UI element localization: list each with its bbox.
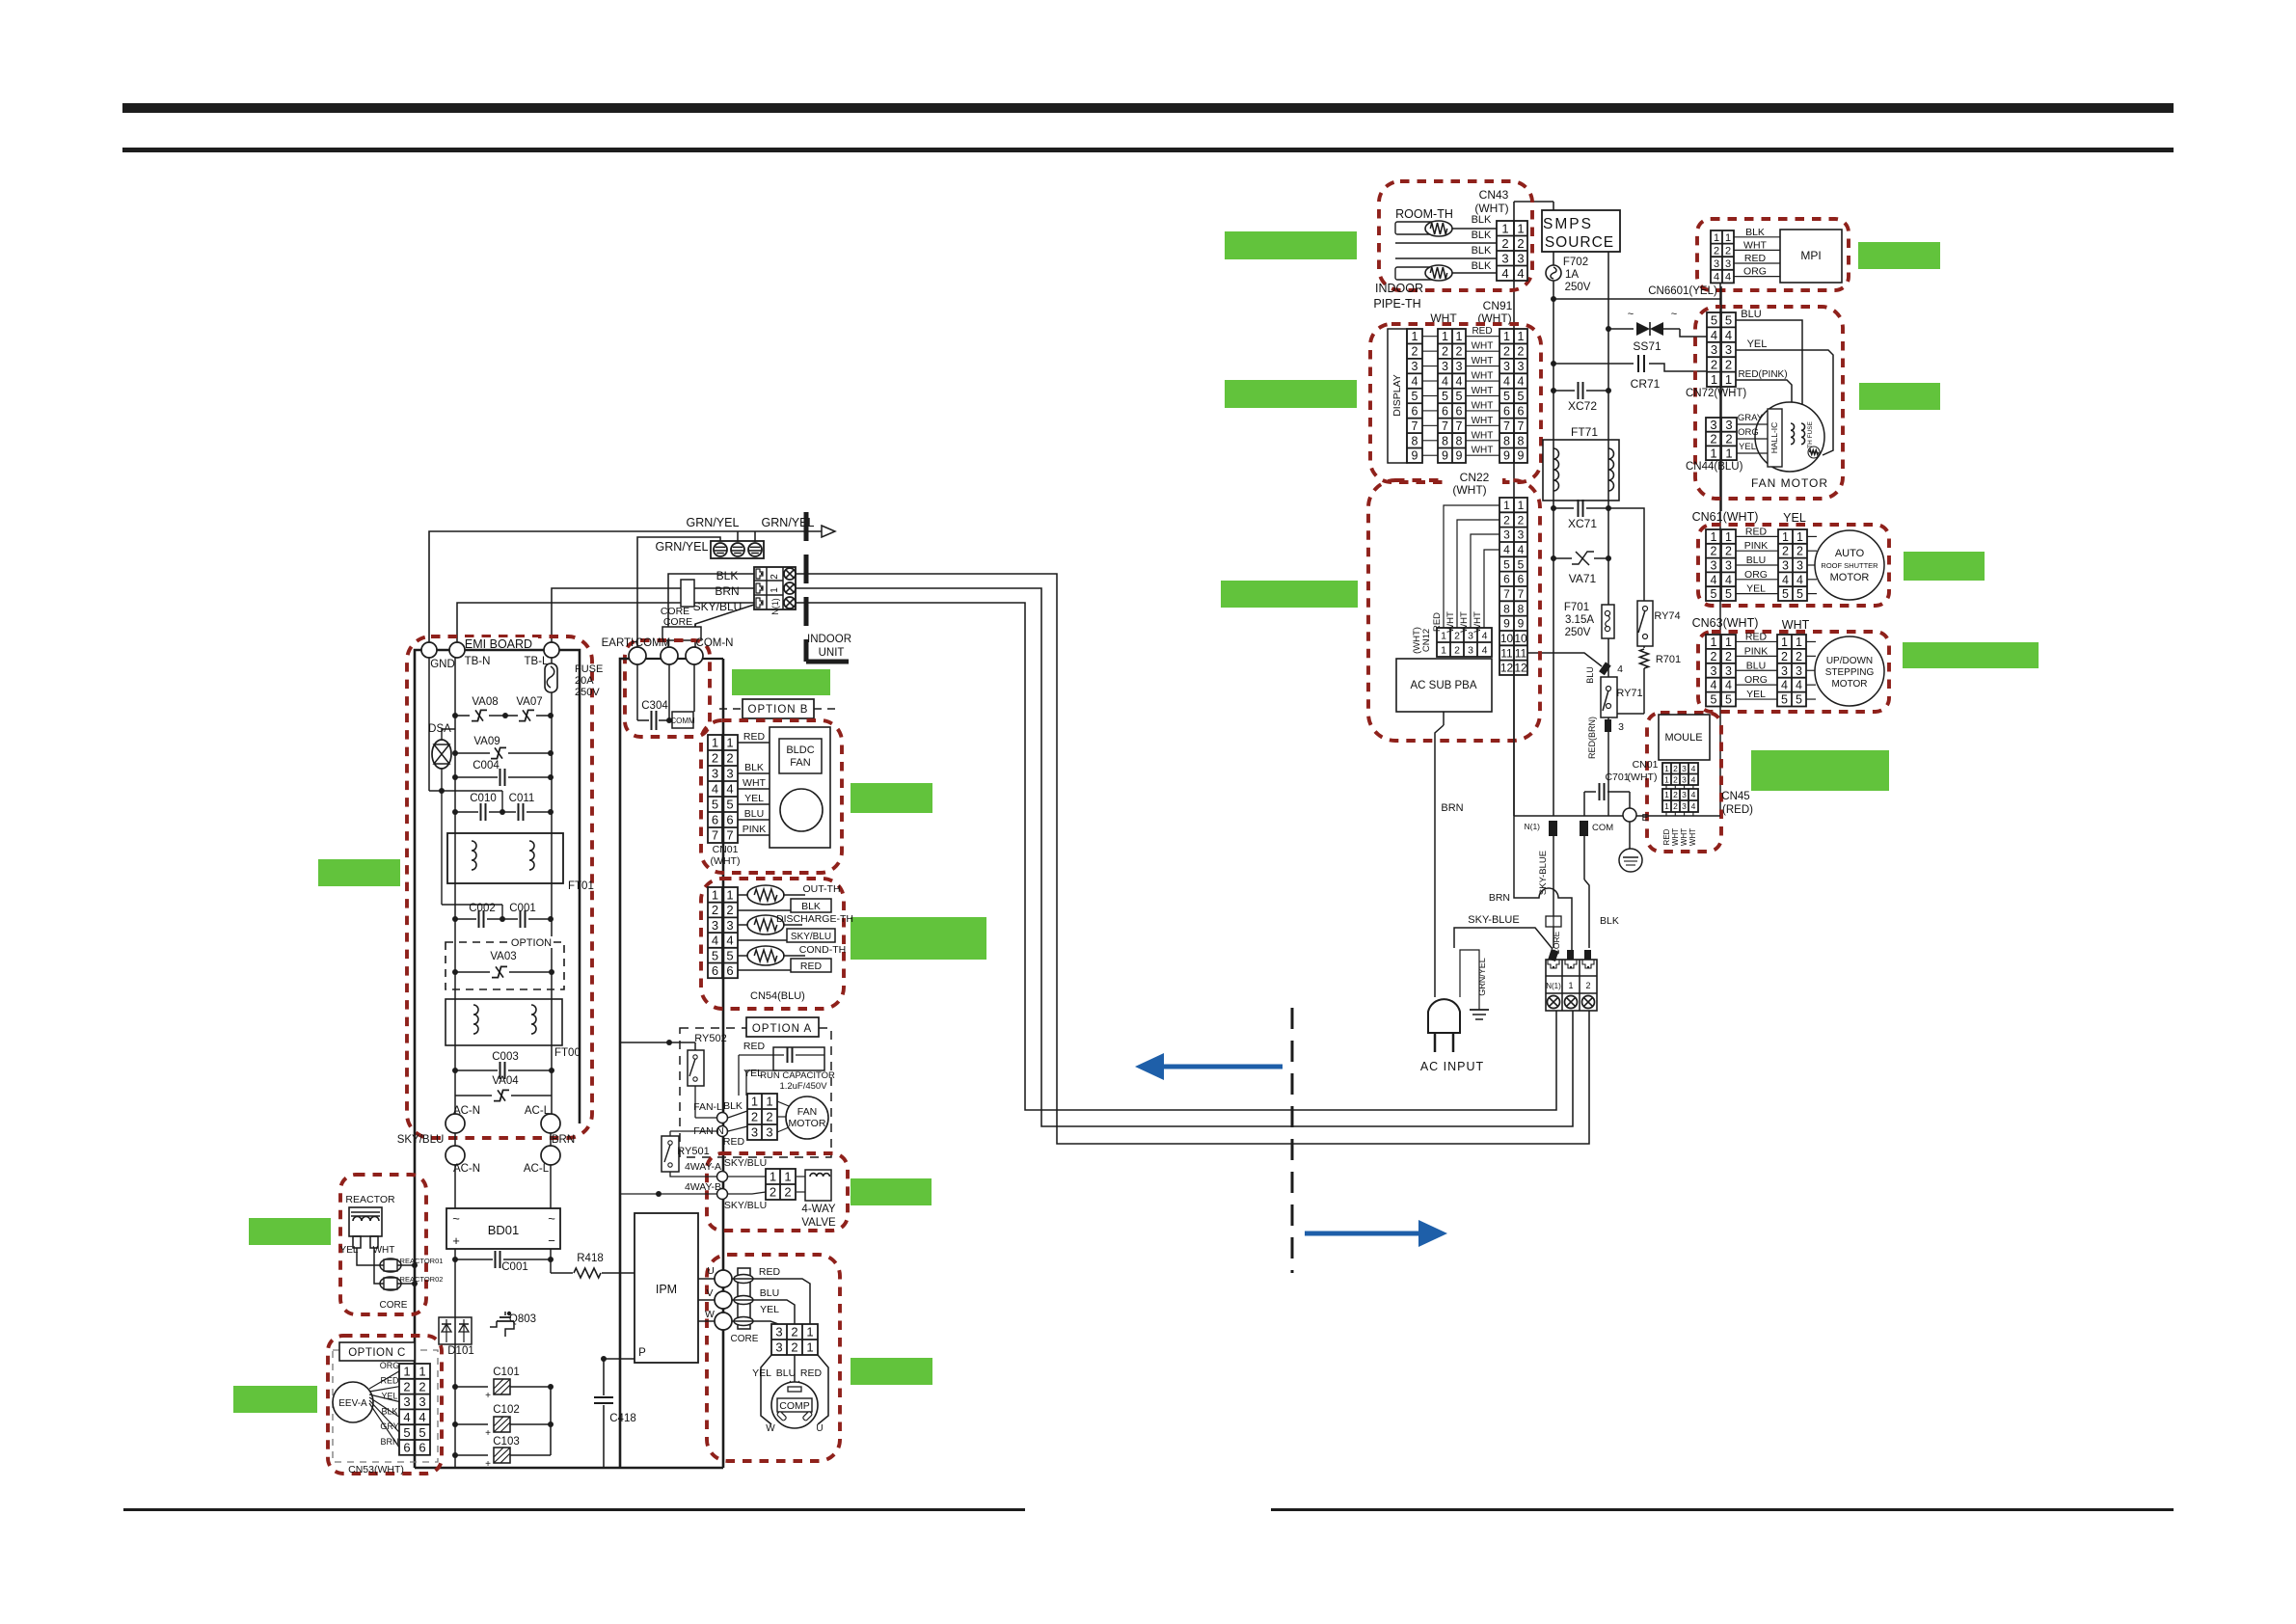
capacitor C701 xyxy=(1584,791,1596,793)
wire to CN66 xyxy=(1553,298,1720,300)
svg-text:C003: C003 xyxy=(492,1051,519,1063)
terminal AC-N main board xyxy=(446,1146,465,1165)
MOULE dashed outline xyxy=(1647,713,1721,852)
wire U RED xyxy=(732,1279,810,1324)
wire CN72 pin5 BLU to motor xyxy=(1736,320,1802,421)
vertical bus CN66 down xyxy=(1719,283,1721,816)
ROOM-TH dashed outline xyxy=(1379,181,1532,290)
svg-text:1: 1 xyxy=(1664,764,1669,773)
capacitor XC72 xyxy=(1551,388,1556,393)
svg-text:RY71: RY71 xyxy=(1616,688,1642,699)
svg-text:RED: RED xyxy=(1744,253,1767,264)
wire BLU to comp top xyxy=(794,1355,796,1389)
svg-text:4: 4 xyxy=(1482,630,1488,641)
svg-text:HALL-IC: HALL-IC xyxy=(1769,422,1779,454)
svg-text:8: 8 xyxy=(1412,434,1418,447)
svg-text:20A: 20A xyxy=(575,675,594,687)
fuse F702 1A 250V xyxy=(1546,265,1561,281)
svg-text:6: 6 xyxy=(712,813,718,827)
svg-text:1: 1 xyxy=(1441,630,1446,641)
svg-text:(WHT): (WHT) xyxy=(1452,483,1486,497)
svg-text:1: 1 xyxy=(726,736,733,750)
core on UVW wires xyxy=(738,1268,750,1329)
svg-text:(WHT): (WHT) xyxy=(1412,627,1422,654)
earth terminal strip (3 screw terminals) xyxy=(711,541,764,558)
svg-text:2: 2 xyxy=(1673,801,1678,811)
svg-text:2: 2 xyxy=(1725,245,1731,257)
svg-text:3: 3 xyxy=(1781,664,1788,678)
svg-text:WHT: WHT xyxy=(1472,386,1494,396)
svg-text:WHT: WHT xyxy=(1472,341,1494,352)
connector CN63 left table xyxy=(1706,635,1736,707)
motor winding coils xyxy=(1791,423,1795,445)
green redaction box 5 xyxy=(1904,552,1985,581)
svg-text:XC72: XC72 xyxy=(1568,399,1597,413)
svg-text:1: 1 xyxy=(1664,801,1669,811)
svg-text:8: 8 xyxy=(1503,434,1510,447)
svg-text:3: 3 xyxy=(712,918,718,933)
svg-text:2: 2 xyxy=(1673,764,1678,773)
svg-text:2: 2 xyxy=(766,1110,772,1124)
svg-text:BLK: BLK xyxy=(1472,214,1492,226)
terminal TB-L xyxy=(544,642,559,658)
green redaction box 8 xyxy=(1751,750,1889,791)
svg-text:CN44(BLU): CN44(BLU) xyxy=(1686,461,1743,473)
svg-text:1: 1 xyxy=(1517,221,1524,235)
line filter FT00 xyxy=(446,999,562,1045)
svg-text:4: 4 xyxy=(1456,375,1463,389)
svg-text:U: U xyxy=(816,1423,823,1434)
svg-text:3: 3 xyxy=(1682,790,1687,799)
connector fan 3-pin table xyxy=(747,1094,777,1140)
svg-text:FT71: FT71 xyxy=(1571,425,1598,439)
indoor/outdoor boundary dashed line (top) xyxy=(804,512,809,662)
wires and labels CN63 xyxy=(1736,640,1777,642)
wires 4way terminals to connector xyxy=(728,1176,766,1177)
svg-text:8: 8 xyxy=(1456,434,1463,447)
svg-text:4: 4 xyxy=(726,782,733,797)
svg-text:5: 5 xyxy=(1725,693,1732,707)
indoor unit corner bracket xyxy=(806,660,849,664)
svg-text:7: 7 xyxy=(1456,420,1463,433)
wire N(1) from TB-N to terminal block xyxy=(457,603,754,644)
svg-text:PIPE-TH: PIPE-TH xyxy=(1373,297,1420,311)
svg-text:4: 4 xyxy=(1711,679,1717,692)
svg-text:5: 5 xyxy=(1796,693,1802,707)
svg-text:F701: F701 xyxy=(1564,602,1589,613)
wire AC-L to BD01 xyxy=(550,1165,552,1208)
wire bus 1 outdoor to indoor xyxy=(796,588,1573,1126)
svg-text:9: 9 xyxy=(1503,449,1510,463)
BLDC fan circle xyxy=(780,789,823,831)
connector CN01 module table xyxy=(1662,763,1698,785)
svg-text:BRN: BRN xyxy=(1489,892,1510,904)
svg-text:F702: F702 xyxy=(1563,257,1588,268)
svg-text:SS71: SS71 xyxy=(1633,339,1661,353)
svg-text:8: 8 xyxy=(1518,602,1525,615)
svg-text:RY501: RY501 xyxy=(677,1146,709,1157)
svg-text:VA71: VA71 xyxy=(1569,572,1597,585)
svg-text:C011: C011 xyxy=(509,793,535,804)
connector COM black xyxy=(1580,821,1588,836)
svg-text:RED(PINK): RED(PINK) xyxy=(1738,369,1787,380)
svg-text:RED: RED xyxy=(759,1266,781,1278)
terminal TB-N xyxy=(449,642,465,658)
svg-text:12: 12 xyxy=(1500,662,1514,675)
svg-text:WHT: WHT xyxy=(1472,356,1494,366)
svg-text:MOTOR: MOTOR xyxy=(1830,572,1870,583)
svg-text:2: 2 xyxy=(791,1325,797,1340)
svg-text:1: 1 xyxy=(1441,644,1446,656)
svg-text:CR71: CR71 xyxy=(1631,377,1661,391)
svg-text:UNIT: UNIT xyxy=(819,647,845,659)
svg-text:2: 2 xyxy=(1503,345,1510,359)
svg-text:3: 3 xyxy=(1725,559,1732,573)
svg-text:SKY/BLU: SKY/BLU xyxy=(693,600,743,613)
svg-text:CORE: CORE xyxy=(731,1334,759,1344)
svg-text:1: 1 xyxy=(1711,530,1717,544)
svg-text:1: 1 xyxy=(1711,636,1717,649)
svg-text:E: E xyxy=(1641,812,1648,824)
svg-text:1: 1 xyxy=(1725,636,1732,649)
svg-text:W: W xyxy=(705,1309,715,1320)
svg-text:FUSE: FUSE xyxy=(575,663,603,675)
svg-text:YEL: YEL xyxy=(1746,689,1766,700)
wires CN91 middle to right with labels xyxy=(1466,336,1499,338)
svg-text:7: 7 xyxy=(1518,587,1525,601)
svg-text:6: 6 xyxy=(1503,573,1510,586)
svg-text:4: 4 xyxy=(1691,790,1696,799)
svg-text:6: 6 xyxy=(1518,404,1525,418)
svg-text:3: 3 xyxy=(1501,251,1508,265)
svg-text:BLK: BLK xyxy=(1745,227,1765,238)
blue arrow left (to outdoor unit) xyxy=(1162,1065,1283,1069)
svg-text:4: 4 xyxy=(1725,573,1732,586)
wire AC-N to BD01 xyxy=(454,1165,456,1208)
svg-text:SKY-BLUE: SKY-BLUE xyxy=(1468,914,1519,926)
svg-text:C002: C002 xyxy=(469,903,496,914)
svg-text:2: 2 xyxy=(712,903,718,917)
svg-text:5: 5 xyxy=(1796,587,1803,601)
wire AC-N drop xyxy=(454,1133,456,1146)
svg-text:1: 1 xyxy=(1781,636,1788,649)
svg-text:SKY/BLU: SKY/BLU xyxy=(724,1157,767,1169)
svg-text:2: 2 xyxy=(1725,358,1732,372)
svg-text:2: 2 xyxy=(1454,644,1460,656)
svg-text:+: + xyxy=(452,1233,460,1248)
wire XC71 to RY74 xyxy=(1608,508,1644,601)
svg-text:INDOOR: INDOOR xyxy=(1375,282,1423,295)
svg-text:5: 5 xyxy=(1503,557,1510,571)
svg-text:AC-L: AC-L xyxy=(524,1163,550,1175)
label BLK box (OUT-TH) xyxy=(791,899,831,912)
wire RY502 to FAN-L xyxy=(694,1086,696,1118)
svg-text:1: 1 xyxy=(1711,372,1717,387)
svg-text:4: 4 xyxy=(1691,801,1696,811)
label RED box (COND-TH) xyxy=(791,959,831,972)
svg-text:10: 10 xyxy=(1500,632,1514,645)
svg-text:8: 8 xyxy=(1518,434,1525,447)
svg-text:4: 4 xyxy=(1714,272,1719,284)
svg-text:REACTOR: REACTOR xyxy=(345,1194,395,1205)
wire bus 2 outdoor to indoor xyxy=(796,574,1589,1144)
svg-text:4: 4 xyxy=(1711,573,1717,586)
svg-text:3: 3 xyxy=(1711,559,1717,573)
svg-text:RED: RED xyxy=(1662,828,1671,845)
svg-text:+: + xyxy=(485,1459,491,1470)
svg-text:C004: C004 xyxy=(473,760,500,771)
svg-text:VALVE: VALVE xyxy=(801,1217,836,1229)
svg-text:1: 1 xyxy=(419,1365,425,1379)
connector 4-way 2-pin table xyxy=(766,1169,796,1200)
svg-text:C010: C010 xyxy=(470,793,497,804)
svg-text:4WAY-A: 4WAY-A xyxy=(685,1161,721,1173)
header rule thin xyxy=(122,148,2174,152)
svg-text:7: 7 xyxy=(1503,587,1510,601)
svg-text:C701: C701 xyxy=(1605,771,1629,783)
wire CN72 pin1 RED to motor xyxy=(1736,380,1792,421)
indoor/outdoor divider dashed line (bottom) xyxy=(1291,1008,1294,1273)
svg-text:D101: D101 xyxy=(447,1345,474,1357)
svg-text:N(1): N(1) xyxy=(1524,822,1540,831)
svg-text:Q803: Q803 xyxy=(509,1313,536,1325)
diode SS71 xyxy=(1606,326,1611,332)
svg-text:P: P xyxy=(638,1347,646,1359)
label box OPTION A xyxy=(746,1017,819,1037)
svg-text:3: 3 xyxy=(403,1394,410,1409)
svg-text:2: 2 xyxy=(784,1185,791,1200)
svg-text:4: 4 xyxy=(1796,573,1803,586)
svg-text:WHT: WHT xyxy=(1671,828,1680,846)
svg-text:3: 3 xyxy=(1412,360,1418,373)
svg-text:WHT: WHT xyxy=(1782,618,1810,632)
svg-text:1: 1 xyxy=(806,1340,813,1355)
svg-text:MPI: MPI xyxy=(1800,249,1821,262)
connector CN12 4x2 table xyxy=(1437,628,1492,657)
wire SMPS left rail down xyxy=(1553,281,1554,816)
EEV wire fan-out with labels xyxy=(369,1371,399,1389)
svg-text:BRN: BRN xyxy=(715,584,739,598)
svg-text:4: 4 xyxy=(1501,266,1508,281)
svg-text:6: 6 xyxy=(1456,404,1463,418)
svg-text:BLK: BLK xyxy=(1472,260,1492,272)
EARTH COMM dashed outline xyxy=(625,640,710,737)
wire BLK pin3 xyxy=(1395,257,1497,259)
wire DSA bypass xyxy=(429,790,502,792)
svg-text:2: 2 xyxy=(770,1185,776,1200)
svg-text:FT00: FT00 xyxy=(554,1047,581,1059)
rail wire N(1)-COM-E xyxy=(1514,815,1720,817)
wire BLK pin2 xyxy=(1395,242,1497,244)
bridge rectifier BD01 xyxy=(446,1208,560,1249)
svg-text:4: 4 xyxy=(1796,679,1802,692)
comp plug housing xyxy=(761,1355,771,1424)
svg-text:WHT: WHT xyxy=(1472,416,1494,426)
svg-text:1: 1 xyxy=(1714,232,1719,244)
wire SKY-BLUE to AC terminal xyxy=(1454,928,1553,949)
green redaction box 14 xyxy=(851,1178,932,1205)
svg-text:5: 5 xyxy=(1503,390,1510,403)
svg-text:3: 3 xyxy=(1710,418,1716,432)
svg-text:WHT: WHT xyxy=(1472,430,1494,441)
svg-text:PINK: PINK xyxy=(1744,645,1769,657)
wire BRN from TB-L to terminal block xyxy=(552,588,754,644)
svg-text:3: 3 xyxy=(1503,528,1510,542)
DISPLAY dashed outline xyxy=(1370,324,1541,482)
svg-text:MOTOR: MOTOR xyxy=(1831,679,1867,690)
thermistor OUT-TH xyxy=(738,894,748,896)
4-way valve dashed outline xyxy=(707,1153,848,1231)
svg-text:6: 6 xyxy=(1503,404,1510,418)
svg-text:U: U xyxy=(707,1265,715,1277)
svg-text:YEL: YEL xyxy=(340,1245,359,1256)
svg-text:1: 1 xyxy=(1725,372,1732,387)
svg-text:6: 6 xyxy=(403,1441,410,1455)
svg-text:CN91: CN91 xyxy=(1483,299,1513,312)
green redaction box 13 xyxy=(249,1218,331,1245)
thermistor DISCHARGE-TH xyxy=(738,924,748,926)
CN22 dashed outline xyxy=(1368,480,1540,741)
svg-text:1: 1 xyxy=(1442,330,1448,343)
svg-text:2: 2 xyxy=(1503,513,1510,527)
svg-text:RED: RED xyxy=(1472,326,1492,337)
svg-text:TB-N: TB-N xyxy=(465,656,491,667)
main bus vertical (CN43/CN91/CN22) xyxy=(1513,202,1515,816)
wires CN01 to CN45 xyxy=(1665,785,1667,789)
svg-text:BRN: BRN xyxy=(552,1134,575,1146)
green redaction box 12 xyxy=(318,859,400,886)
svg-text:4: 4 xyxy=(1518,543,1525,556)
DISPLAY block xyxy=(1388,329,1407,463)
svg-text:9: 9 xyxy=(1503,617,1510,631)
svg-text:N(1): N(1) xyxy=(1546,982,1561,990)
main board right rail (bus) xyxy=(722,659,725,1468)
OPTION C inner dashed box xyxy=(333,1350,438,1462)
blue arrow right (to indoor unit) xyxy=(1305,1232,1419,1236)
svg-text:5: 5 xyxy=(1518,390,1525,403)
svg-text:BLK: BLK xyxy=(716,569,739,582)
svg-text:WHT: WHT xyxy=(1680,828,1688,846)
svg-text:V: V xyxy=(706,1287,713,1299)
green redaction box 4 xyxy=(1859,383,1940,410)
wire GND internal xyxy=(428,658,430,791)
svg-text:CORE: CORE xyxy=(380,1300,408,1311)
fuse FUSE 20A 250V xyxy=(545,663,557,692)
green redaction box 11 xyxy=(851,917,986,960)
svg-text:+: + xyxy=(485,1391,491,1401)
svg-text:IPM: IPM xyxy=(656,1283,677,1296)
earth-comm solid box edges xyxy=(620,659,629,1468)
svg-text:3: 3 xyxy=(1782,559,1789,573)
svg-text:+: + xyxy=(485,1428,491,1439)
svg-text:3: 3 xyxy=(1725,664,1732,678)
footer rule right xyxy=(1271,1508,2174,1511)
svg-text:GRN/YEL: GRN/YEL xyxy=(656,540,709,554)
label box OPTION B xyxy=(719,708,743,710)
svg-text:2: 2 xyxy=(1725,650,1732,663)
svg-text:AC-N: AC-N xyxy=(453,1163,480,1175)
CN63 dashed outline xyxy=(1698,632,1889,712)
svg-text:1: 1 xyxy=(1518,499,1525,512)
svg-text:5: 5 xyxy=(419,1425,425,1440)
svg-text:2: 2 xyxy=(1412,345,1418,359)
terminal FAN-N xyxy=(717,1126,728,1137)
svg-text:250V: 250V xyxy=(575,687,600,698)
AC SUB PBA box xyxy=(1396,659,1492,712)
svg-text:BLK: BLK xyxy=(381,1406,397,1416)
svg-text:3: 3 xyxy=(1456,360,1463,373)
core on comm wires (small) xyxy=(681,580,694,607)
connector CN53 6-pin table xyxy=(399,1364,430,1455)
outdoor terminal block N(1) 1 2 xyxy=(754,567,796,609)
wire SKY-BLUE down from N(1) xyxy=(1553,836,1554,948)
svg-text:VA03: VA03 xyxy=(490,951,516,962)
svg-text:2: 2 xyxy=(1782,545,1789,558)
connector CN45 table xyxy=(1662,789,1698,812)
svg-text:3: 3 xyxy=(775,1340,782,1355)
svg-text:ORG: ORG xyxy=(1744,569,1768,581)
wires CN01 to BLDC fan xyxy=(738,742,770,744)
EMI board solid box xyxy=(415,650,580,1123)
MPI dashed outline xyxy=(1697,219,1849,290)
svg-text:FAN: FAN xyxy=(790,757,810,769)
terminal FAN-L xyxy=(717,1113,728,1123)
svg-text:SKY/BLU: SKY/BLU xyxy=(791,932,831,942)
svg-text:2: 2 xyxy=(1456,345,1463,359)
svg-text:DISCHARGE-TH: DISCHARGE-TH xyxy=(776,913,853,925)
MPI box xyxy=(1780,230,1842,283)
svg-text:9: 9 xyxy=(1518,449,1525,463)
svg-text:BD01: BD01 xyxy=(488,1223,520,1237)
svg-text:OPTION C: OPTION C xyxy=(348,1347,406,1359)
svg-text:2: 2 xyxy=(1673,790,1678,799)
svg-text:3: 3 xyxy=(1503,360,1510,373)
wire COMM down to C304 junction xyxy=(668,664,670,720)
svg-text:SKY/BLU: SKY/BLU xyxy=(724,1200,767,1211)
svg-text:BLK: BLK xyxy=(801,901,821,912)
svg-text:4: 4 xyxy=(1711,328,1717,342)
svg-text:BLK: BLK xyxy=(1472,245,1492,257)
svg-text:WHT: WHT xyxy=(1472,400,1494,411)
svg-text:4: 4 xyxy=(1725,679,1732,692)
svg-text:1: 1 xyxy=(766,1095,772,1109)
svg-text:2: 2 xyxy=(1442,345,1448,359)
diode D101 xyxy=(439,1317,472,1344)
svg-text:8: 8 xyxy=(1442,434,1448,447)
svg-text:4: 4 xyxy=(1691,774,1696,784)
varistor VA71 xyxy=(1551,555,1556,561)
green redaction box 2 xyxy=(1858,242,1940,269)
reactor symbol xyxy=(349,1207,382,1236)
svg-text:FAN: FAN xyxy=(797,1106,817,1118)
svg-text:5: 5 xyxy=(712,798,718,812)
svg-text:C102: C102 xyxy=(493,1404,520,1416)
svg-text:2: 2 xyxy=(791,1340,797,1355)
label box OPTION C xyxy=(339,1342,415,1361)
svg-text:10: 10 xyxy=(1514,632,1527,645)
connector CN22 12-pin table xyxy=(1499,498,1527,675)
wire BRN from AC SUB down xyxy=(1434,722,1436,869)
svg-text:ORG: ORG xyxy=(380,1361,400,1370)
wire BLK from COMM riser to terminal block xyxy=(668,574,754,634)
AC plug xyxy=(1428,999,1460,1033)
wire COM-N down to COMM box xyxy=(693,664,695,712)
wire to RY502 xyxy=(620,1042,695,1043)
svg-text:OUT-TH: OUT-TH xyxy=(802,883,840,895)
svg-text:6: 6 xyxy=(712,963,718,978)
label SKY/BLU box (DISCHARGE-TH) xyxy=(787,929,835,942)
svg-text:3: 3 xyxy=(1714,258,1719,270)
